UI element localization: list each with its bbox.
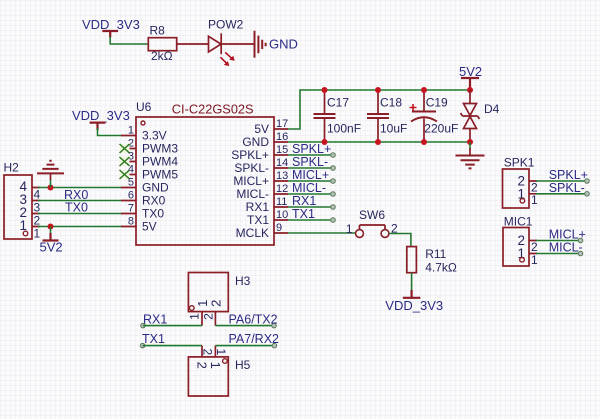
svg-text:2: 2: [201, 348, 215, 355]
net label PA6/TX2: [229, 313, 278, 327]
wire net MICL+ (MIC1.2): [536, 238, 583, 243]
svg-text:GND: GND: [142, 181, 169, 195]
junction C18 top: [375, 87, 381, 93]
capacitor C18: [367, 90, 407, 142]
connector MIC1: [503, 215, 538, 267]
U6 right pin stubs: [274, 129, 288, 233]
net label RX1: [292, 194, 316, 208]
svg-text:TX1: TX1: [142, 332, 165, 346]
net label MICL+: [292, 168, 329, 182]
wire RX0 H2.3 to U6: [38, 200, 122, 202]
svg-text:MIC1: MIC1: [504, 215, 533, 229]
capacitor C17: [314, 90, 362, 142]
junction C19 top: [421, 87, 427, 93]
svg-text:2: 2: [202, 313, 216, 320]
svg-text:PWM3: PWM3: [142, 142, 178, 156]
svg-text:C18: C18: [380, 96, 402, 110]
power flag VDD_3V3 (above U6 pin 1): [72, 108, 130, 130]
svg-text:9: 9: [276, 222, 282, 234]
power flag 5V2 (top right): [459, 64, 482, 90]
svg-text:SPKL-: SPKL-: [549, 181, 585, 195]
svg-text:SW6: SW6: [359, 208, 385, 222]
wire net MICL+ (U6 pin13): [288, 179, 335, 184]
svg-text:TX1: TX1: [292, 207, 315, 221]
switch SW6: [346, 208, 398, 237]
junction C18 bottom: [375, 139, 381, 145]
no-connect X on pin 3: [120, 157, 130, 166]
wire net SPKL- (SPK1.1): [536, 192, 589, 197]
svg-text:5V2: 5V2: [459, 64, 482, 79]
net label MICL+: [549, 228, 586, 242]
wire net RX1 (U6 pin11): [288, 205, 335, 210]
svg-text:10: 10: [276, 209, 288, 221]
net label SPKL-: [549, 181, 585, 195]
svg-text:SPK1: SPK1: [504, 156, 535, 170]
LED POW2: [208, 18, 244, 67]
svg-text:R11: R11: [425, 247, 446, 261]
connector SPK1: [503, 156, 539, 209]
resistor R8: [148, 24, 176, 64]
svg-text:H5: H5: [235, 358, 251, 372]
svg-text:H2: H2: [4, 161, 20, 175]
wire net RX1 (to H3.1): [141, 323, 202, 328]
junction C17 bottom: [322, 139, 328, 145]
svg-text:1: 1: [531, 193, 538, 207]
net label PA7/RX2: [229, 332, 280, 346]
svg-text:3: 3: [34, 201, 41, 215]
svg-text:TX1: TX1: [247, 213, 269, 227]
svg-text:1: 1: [531, 253, 538, 267]
svg-text:1: 1: [128, 125, 134, 137]
op-amp U6 CI-C22GS02S: [136, 100, 274, 245]
wire U6 pin17 to 5V rail: [288, 90, 470, 129]
junction C19 bottom: [421, 139, 427, 145]
svg-text:3.3V: 3.3V: [142, 129, 167, 143]
svg-text:MICL-: MICL-: [292, 181, 326, 195]
net label RX1: [143, 313, 167, 327]
wire SW6 to R11: [389, 234, 411, 247]
svg-text:C17: C17: [327, 96, 349, 110]
svg-text:1: 1: [208, 362, 223, 369]
ground (above H2, pointing up): [37, 161, 64, 188]
wire U6 pin16 GND rail: [288, 141, 470, 143]
svg-text:RX1: RX1: [246, 200, 270, 214]
svg-text:5V2: 5V2: [40, 240, 63, 255]
diode D4 (TVS): [461, 90, 500, 142]
svg-text:VDD_3V3: VDD_3V3: [72, 108, 130, 123]
junction C17 top: [322, 87, 328, 93]
wire H2.1 to U6 5V: [38, 226, 122, 228]
wire U6 MCLK to SW6: [288, 232, 356, 234]
svg-text:13: 13: [276, 170, 288, 182]
svg-text:MICL-: MICL-: [236, 187, 269, 201]
wire R8 to LED: [177, 43, 209, 45]
U6 left pin stubs: [121, 136, 136, 227]
no-connect X on pin 4: [120, 170, 130, 179]
svg-text:PWM5: PWM5: [142, 168, 178, 182]
power flag 5V2 (below H2): [40, 227, 63, 255]
junction (5V2 tap): [48, 224, 54, 230]
svg-text:2: 2: [209, 300, 224, 307]
U6 left pin names: [142, 129, 178, 234]
wire LED to GND: [221, 43, 254, 45]
power flag VDD_3V3 (top left): [82, 17, 140, 38]
svg-text:TX0: TX0: [65, 201, 88, 215]
svg-text:7: 7: [128, 203, 134, 215]
svg-text:2: 2: [195, 362, 210, 369]
svg-text:SPKL-: SPKL-: [292, 155, 328, 169]
net label RX0: [64, 188, 88, 202]
wire H2.4 to U6 GND: [38, 187, 122, 189]
svg-text:POW2: POW2: [208, 18, 244, 32]
svg-text:SPKL+: SPKL+: [231, 148, 269, 162]
capacitor C19 (polarized): [410, 90, 459, 142]
net label MICL-: [292, 181, 326, 195]
svg-text:MICL+: MICL+: [549, 228, 586, 242]
svg-text:H3: H3: [235, 274, 251, 288]
net label SPKL-: [292, 155, 328, 169]
svg-text:MICL+: MICL+: [292, 168, 329, 182]
svg-text:MCLK: MCLK: [236, 226, 269, 240]
svg-text:RX1: RX1: [292, 194, 316, 208]
svg-text:VDD_3V3: VDD_3V3: [82, 17, 140, 32]
svg-text:MICL+: MICL+: [233, 174, 269, 188]
svg-text:TX0: TX0: [142, 207, 164, 221]
svg-text:1: 1: [214, 348, 228, 355]
svg-text:16: 16: [276, 131, 288, 143]
svg-text:GND: GND: [242, 135, 269, 149]
net label SPKL+: [292, 142, 331, 156]
svg-text:5V: 5V: [254, 122, 269, 136]
svg-text:12: 12: [276, 183, 288, 195]
resistor R11: [407, 247, 457, 275]
svg-text:SPKL-: SPKL-: [234, 161, 269, 175]
svg-text:PA7/RX2: PA7/RX2: [229, 332, 280, 346]
svg-text:17: 17: [276, 118, 288, 130]
U6 left pin numbers: [128, 125, 134, 228]
svg-text:RX0: RX0: [142, 194, 166, 208]
wire net PA6/TX2 (from H3.2): [215, 323, 276, 328]
net label TX1: [292, 207, 315, 221]
svg-text:D4: D4: [484, 102, 500, 116]
svg-text:2kΩ: 2kΩ: [151, 49, 173, 63]
wire net SPKL+ (SPK1.2): [536, 179, 589, 184]
svg-text:U6: U6: [136, 100, 152, 114]
wire net SPKL- (U6 pin14): [288, 166, 335, 171]
svg-text:PA6/TX2: PA6/TX2: [229, 313, 278, 327]
wire VDD_3V3 to R8: [110, 37, 148, 45]
svg-text:4: 4: [34, 188, 41, 202]
svg-text:220uF: 220uF: [424, 122, 458, 136]
ground GND (top right of LED, pointing right): [255, 31, 298, 58]
svg-text:1: 1: [187, 313, 201, 320]
svg-text:5V: 5V: [142, 220, 157, 234]
svg-text:10uF: 10uF: [380, 122, 407, 136]
connector H2: [4, 161, 41, 241]
svg-text:C19: C19: [426, 96, 448, 110]
wire TX0 H2.2 to U6: [38, 213, 122, 215]
connector H3: [187, 273, 250, 326]
wire net TX1 (to H5.2): [140, 343, 202, 348]
wire net SPKL+ (U6 pin15): [288, 153, 335, 158]
U6 right pin names: [231, 122, 269, 240]
svg-text:14: 14: [276, 157, 288, 169]
junction D4 bottom: [467, 139, 473, 145]
svg-text:RX1: RX1: [143, 313, 167, 327]
svg-text:GND: GND: [269, 36, 298, 51]
svg-text:MICL-: MICL-: [549, 241, 583, 255]
junction (GND tap): [48, 185, 54, 191]
U6 right pin numbers: [276, 118, 288, 234]
wire net PA7/RX2 (from H5.1): [215, 343, 276, 348]
svg-text:2: 2: [531, 240, 538, 254]
ground (below D4): [456, 142, 485, 168]
wire net TX1 (U6 pin10): [288, 218, 335, 223]
svg-text:4.7kΩ: 4.7kΩ: [425, 261, 457, 275]
svg-text:100nF: 100nF: [327, 122, 361, 136]
svg-text:R8: R8: [150, 24, 166, 38]
svg-text:VDD_3V3: VDD_3V3: [385, 298, 443, 313]
connector H5: [188, 346, 250, 396]
wire VDD_3V3 to U6 pin1: [98, 128, 123, 136]
wire net MICL- (MIC1.1): [536, 251, 583, 256]
svg-text:11: 11: [276, 196, 287, 208]
svg-text:15: 15: [276, 144, 288, 156]
svg-text:1: 1: [34, 227, 41, 241]
svg-text:2: 2: [34, 214, 41, 228]
net label TX1: [142, 332, 165, 346]
svg-text:PWM4: PWM4: [142, 155, 178, 169]
net label MICL-: [549, 241, 583, 255]
net label SPKL+: [549, 168, 588, 182]
svg-text:1: 1: [346, 222, 353, 236]
net label TX0: [65, 201, 88, 215]
no-connect X on pin 2: [120, 144, 130, 153]
svg-text:6: 6: [128, 190, 134, 202]
svg-text:SPKL+: SPKL+: [292, 142, 331, 156]
junction D4 top: [467, 87, 473, 93]
power flag VDD_3V3 (below R11): [385, 273, 443, 313]
wire net MICL- (U6 pin12): [288, 192, 335, 197]
svg-text:8: 8: [128, 216, 134, 228]
svg-text:CI-C22GS02S: CI-C22GS02S: [172, 102, 254, 117]
